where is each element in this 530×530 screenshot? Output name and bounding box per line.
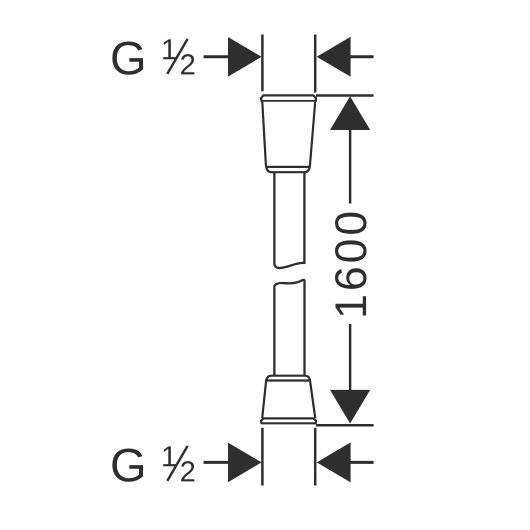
extension line top-left (261, 35, 264, 92)
hose cone inner line bottom (267, 379, 310, 381)
hose cone bottom (262, 376, 315, 419)
extension line top-right (314, 35, 317, 93)
fraction slash bottom (167, 446, 187, 481)
label G bottom (112, 446, 194, 481)
dimension tail left bottom (204, 461, 232, 464)
arrowhead right-pointing top-left (228, 37, 262, 77)
hose cone top (262, 102, 315, 172)
dimension tail right bottom (345, 461, 374, 464)
arrowhead right-pointing bottom-left (228, 443, 262, 483)
label 1600 (335, 213, 367, 316)
extension line bottom-right (314, 428, 317, 486)
dimension bar 1600 top (316, 94, 374, 97)
dimension tail left top (204, 55, 232, 58)
hose upper segment (274, 173, 304, 268)
arrowhead down 1600 (330, 390, 370, 424)
hose nut cap top (261, 95, 316, 101)
arrowhead left-pointing top-right (317, 37, 351, 77)
dimension line 1600 upper (349, 128, 352, 204)
fraction slash top (167, 39, 187, 74)
hose nut cap bottom (261, 418, 316, 423)
dimension bar 1600 bottom (316, 424, 374, 427)
hose lower segment (274, 280, 304, 375)
label G top (112, 39, 194, 74)
arrowhead up 1600 (330, 96, 370, 130)
dimension tail right top (345, 55, 374, 58)
dimension line 1600 lower (349, 324, 352, 391)
hose cone inner line top (266, 166, 309, 168)
extension line bottom-left (261, 428, 264, 486)
arrowhead left-pointing bottom-right (317, 442, 351, 482)
